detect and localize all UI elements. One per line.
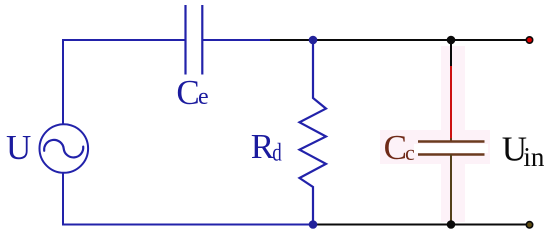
terminal: top-right output (red)	[526, 37, 532, 43]
label Cc	[384, 128, 415, 167]
highlight halo around Cc branch	[380, 46, 490, 222]
label Rd	[251, 127, 282, 166]
wire: left vertical blue from top wire down to source	[62, 40, 64, 125]
node: junction dot at Rd top (blue)	[309, 36, 318, 45]
svg-text:U: U	[6, 128, 31, 167]
wire: top-left horizontal (blue) from source to Ce	[62, 39, 186, 41]
label Ce	[176, 73, 208, 112]
label U (source)	[6, 128, 31, 167]
wire: Cc branch lower olive-brown segment to bottom wire	[450, 155, 452, 225]
svg-text:d: d	[272, 138, 281, 166]
node: junction dot at Cc top (black)	[447, 36, 456, 45]
wire: Cc branch black stub from top node	[450, 40, 452, 66]
AC source U	[40, 124, 89, 173]
node: junction dot at Rd bottom (blue)	[309, 220, 318, 229]
label Uin	[502, 130, 545, 172]
wire: top horizontal blue segment right of Ce	[202, 39, 270, 41]
terminal: bottom-right output (olive)	[526, 222, 532, 228]
svg-text:C: C	[384, 128, 407, 167]
svg-text:R: R	[251, 127, 275, 166]
capacitor Cc	[418, 142, 485, 155]
svg-text:c: c	[405, 140, 415, 165]
svg-text:e: e	[198, 84, 209, 110]
wire: Cc branch red segment	[450, 66, 452, 138]
wire: left vertical blue from source down to bottom wire	[62, 173, 64, 225]
wire: Cc branch brown stub to top plate	[450, 138, 452, 142]
capacitor Ce	[186, 5, 203, 75]
svg-text:C: C	[176, 73, 199, 112]
wire: top horizontal black segment to right terminal	[270, 39, 526, 41]
resistor Rd	[300, 40, 327, 225]
wire: bottom horizontal blue from source corner to Rd node	[62, 224, 313, 226]
node: junction dot at Cc bottom (black)	[447, 220, 456, 229]
svg-text:in: in	[523, 142, 545, 172]
wire: bottom horizontal black from Rd node to bottom terminal	[313, 224, 526, 226]
